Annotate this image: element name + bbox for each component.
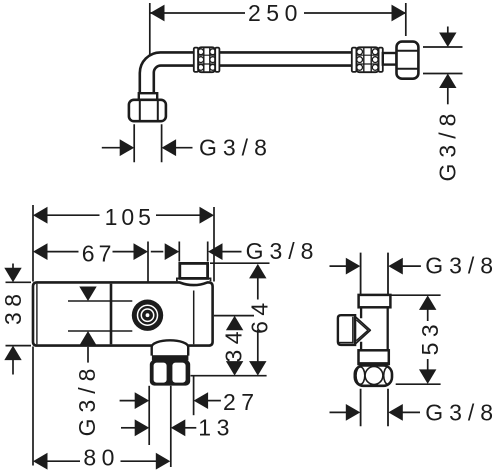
- dim 80: [33, 453, 170, 470]
- svg-text:G3/8: G3/8: [425, 399, 499, 425]
- svg-text:34: 34: [221, 326, 247, 363]
- porter outlet nut: [150, 360, 190, 386]
- hose body: [140, 52, 383, 93]
- svg-text:53: 53: [417, 319, 443, 356]
- porter outlet collar: [152, 355, 189, 360]
- svg-text:G3/8: G3/8: [435, 108, 461, 182]
- valve collar top: [359, 295, 391, 307]
- dim arrows hose right: [439, 27, 456, 105]
- porter sleeve edge: [110, 284, 113, 345]
- hose connector left: [139, 93, 157, 100]
- dim 27: [120, 392, 221, 409]
- porter top port: [180, 263, 208, 278]
- svg-text:G3/8: G3/8: [74, 363, 100, 437]
- ext line right of 250: [405, 3, 407, 36]
- valve tube walls: [361, 307, 388, 350]
- valve nut: [355, 366, 392, 386]
- porter inner line right: [193, 291, 195, 345]
- valve top G3/8 row: [330, 258, 421, 275]
- ext line left column: [32, 205, 34, 466]
- dim 34: [214, 316, 254, 376]
- ext lines below left nut: [134, 124, 161, 162]
- valve bottom G3/8 row: [330, 404, 421, 421]
- valve cone: [355, 317, 370, 344]
- dim 13: [121, 419, 196, 436]
- porter body: [33, 282, 213, 345]
- dim 64: [210, 263, 270, 375]
- dim 67: [33, 243, 148, 260]
- ext line body right top: [213, 207, 215, 282]
- valve side port: [338, 315, 355, 345]
- porter end cap line: [36, 284, 38, 345]
- porter outlet dome: [152, 340, 189, 355]
- dim 250 line: [150, 5, 406, 22]
- dim 38: [4, 264, 31, 375]
- ext line nut left: [148, 386, 150, 445]
- G3/8 left arrows: [79, 287, 96, 363]
- hose end connector right: [383, 53, 397, 65]
- ext lines port edges: [179, 242, 207, 262]
- svg-text:27: 27: [223, 389, 260, 415]
- ext line 27 right: [193, 376, 195, 416]
- hose braid left: [198, 47, 216, 72]
- valve bottom pipe lines: [361, 389, 388, 426]
- hose nut right: [397, 42, 419, 79]
- hose ferrule left-1: [194, 48, 198, 72]
- dim 53: [392, 295, 441, 384]
- bottom leader porter: [191, 375, 267, 377]
- svg-text:13: 13: [198, 415, 235, 441]
- svg-text:80: 80: [83, 444, 120, 470]
- hose ferrule right-1: [352, 48, 357, 72]
- hose ferrule left-2: [215, 48, 219, 72]
- ext line knob center: [147, 242, 149, 282]
- svg-text:64: 64: [247, 297, 273, 334]
- hose braid right: [356, 47, 378, 72]
- dim 105: [33, 207, 214, 224]
- svg-text:67: 67: [82, 241, 116, 267]
- porter knob: [132, 300, 163, 331]
- ext line left of 250: [149, 3, 151, 56]
- dim G3/8 hose left: [102, 139, 193, 156]
- valve collar bottom: [359, 350, 389, 364]
- dim G3/8 port row: [151, 243, 242, 260]
- hose nut left: [129, 100, 166, 121]
- porter bar lines: [68, 301, 132, 331]
- ext line outlet center: [170, 386, 172, 467]
- svg-text:38: 38: [0, 288, 26, 325]
- svg-text:G3/8: G3/8: [425, 252, 499, 278]
- leader lines hose right nut: [423, 47, 463, 74]
- svg-text:105: 105: [105, 204, 155, 230]
- svg-text:250: 250: [248, 0, 303, 26]
- svg-text:G3/8: G3/8: [199, 135, 273, 161]
- svg-text:G3/8: G3/8: [246, 238, 320, 264]
- hose ferrule right-2: [379, 48, 383, 72]
- valve top pipe lines: [361, 253, 388, 295]
